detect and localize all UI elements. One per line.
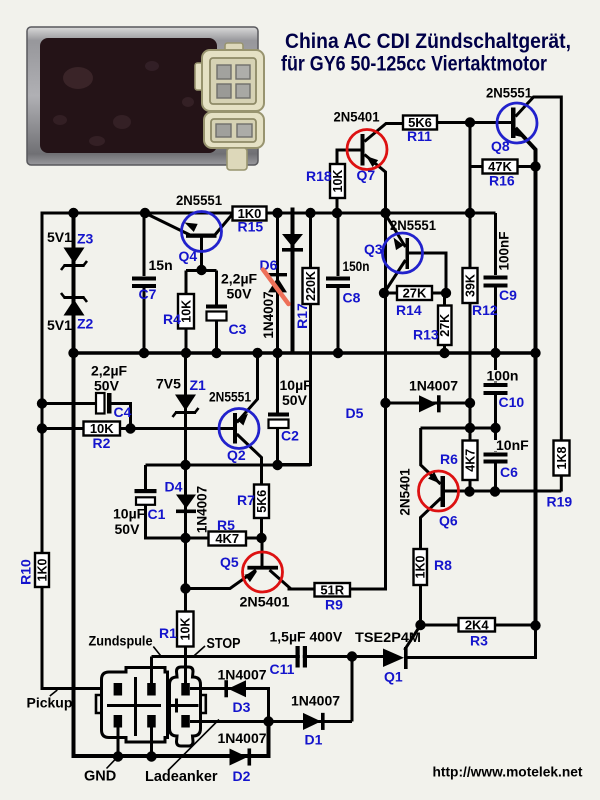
junction D5 anode node <box>380 398 390 408</box>
transistor Q3 emitter arrow <box>394 238 404 251</box>
svg-text:1N4007: 1N4007 <box>218 730 267 746</box>
wire R11 to Q8 base <box>437 121 511 124</box>
junction middle rail / Q2 emitter <box>252 348 262 358</box>
junction middle rail / C9 C10 <box>490 348 500 358</box>
svg-text:R8: R8 <box>434 557 452 573</box>
wire Zundspule terminal riser <box>150 657 153 684</box>
svg-text:GND: GND <box>84 769 116 785</box>
capacitor C7 <box>132 276 156 280</box>
svg-text:R7: R7 <box>237 492 255 508</box>
wire Q4 collector diagonal <box>214 214 233 237</box>
wire R5 leads <box>186 537 262 540</box>
svg-text:C2: C2 <box>281 428 299 444</box>
pointer Pickup <box>50 690 58 696</box>
capacitor C10 <box>484 383 508 387</box>
svg-text:R18: R18 <box>306 168 332 184</box>
svg-text:2N5401: 2N5401 <box>240 594 290 610</box>
resistor R9 <box>315 582 351 597</box>
svg-text:1K0: 1K0 <box>414 555 428 578</box>
svg-text:R5: R5 <box>217 517 235 533</box>
junction R8 / R3 / gate <box>415 620 425 630</box>
svg-text:D4: D4 <box>165 479 183 495</box>
resistor R19 <box>554 441 570 476</box>
svg-text:4K7: 4K7 <box>215 531 239 546</box>
svg-text:R19: R19 <box>547 494 573 510</box>
capacitor C2 (electrolytic) <box>267 413 290 429</box>
resistor R3 <box>459 617 496 632</box>
svg-text:39K: 39K <box>463 274 477 297</box>
junction R11 / Q8 base <box>465 117 475 127</box>
junction top rail / Q8 base column <box>465 208 475 218</box>
svg-text:R6: R6 <box>440 451 458 467</box>
capacitor C11 (vertical plates) <box>296 645 308 668</box>
magneto coil terminal top-left <box>114 683 123 696</box>
capacitor C3 (electrolytic) <box>205 305 228 321</box>
svg-text:Zundspule: Zundspule <box>89 633 153 649</box>
svg-text:Q3: Q3 <box>364 241 383 257</box>
junction ground rail / magneto terminal 2 <box>146 751 156 761</box>
svg-text:C11: C11 <box>270 661 295 677</box>
transistor Q8 base bar <box>511 108 516 139</box>
svg-text:Z2: Z2 <box>77 316 94 332</box>
magneto coil terminal bottom-right (Ladeanker) <box>181 715 190 728</box>
capacitor C9 <box>484 275 508 279</box>
wire Q7 collector to R11 <box>365 124 404 142</box>
zener Z3 <box>61 248 87 271</box>
wire Q3 emitter diagonal <box>386 215 406 248</box>
svg-text:für GY6 50-125cc Viertaktmotor: für GY6 50-125cc Viertaktmotor <box>281 52 548 76</box>
svg-text:Q6: Q6 <box>439 513 458 529</box>
transistor Q5 emitter arrow <box>245 572 257 583</box>
pointer GND <box>107 758 118 769</box>
svg-text:R10: R10 <box>18 559 34 585</box>
svg-text:1N4007: 1N4007 <box>218 667 267 683</box>
svg-text:R11: R11 <box>407 128 432 144</box>
svg-text:10µF: 10µF <box>113 506 146 522</box>
svg-text:C10: C10 <box>499 394 525 410</box>
svg-text:7V5: 7V5 <box>156 376 181 392</box>
svg-text:Q1: Q1 <box>384 669 403 685</box>
magneto coil terminal top-middle (Zundspule) <box>147 683 156 696</box>
resistor R16 <box>483 159 518 174</box>
wire R16 left lead <box>470 165 483 168</box>
junction Z1 / D4 / C1 node <box>180 460 190 470</box>
svg-text:D1: D1 <box>305 732 323 748</box>
wire magneto bottom-middle terminal lead <box>150 727 153 757</box>
photo of CDI unit (black box with metal frame) <box>27 27 258 165</box>
svg-text:R16: R16 <box>489 173 515 189</box>
svg-text:2N5551: 2N5551 <box>390 217 436 233</box>
wire C11 node down to D1 line <box>351 657 354 722</box>
wire C3 bottom <box>215 320 218 353</box>
svg-text:Pickup: Pickup <box>27 695 73 711</box>
diode D6 (crossed out) <box>268 273 287 292</box>
pointer Ladeanker <box>168 720 219 771</box>
svg-text:Q4: Q4 <box>179 248 198 264</box>
transistor Q5 base bar <box>247 566 278 570</box>
resistor R6 <box>463 441 478 481</box>
wire rectifier diode column <box>291 208 295 354</box>
junction Q8 emitter / R16 <box>530 161 540 171</box>
svg-text:50V: 50V <box>282 392 308 408</box>
svg-text:1N4007: 1N4007 <box>261 291 276 338</box>
wire Q5 emitter diagonal <box>186 570 257 589</box>
wire Q3 base diagonal <box>384 260 406 293</box>
svg-text:R9: R9 <box>325 597 343 613</box>
wire D5 leads <box>386 402 471 405</box>
wire C8 column <box>337 213 340 353</box>
svg-text:D2: D2 <box>233 768 251 784</box>
capacitor C4 (electrolytic, vertical plates) <box>96 393 112 414</box>
svg-text:1K8: 1K8 <box>555 446 569 469</box>
junction R3 / Q8 emitter column / cathode <box>530 620 540 630</box>
wire Q6 collector to R8 and gate node <box>421 498 442 625</box>
wire Q4 base to R4 and C3 <box>186 236 217 305</box>
wire Q6 base node line to R19 <box>445 490 561 493</box>
junction top rail / zener column <box>68 208 78 218</box>
wire Z1/D4/R1 column <box>184 353 187 683</box>
svg-text:27K: 27K <box>438 314 452 337</box>
magneto coil terminal bottom-left (GND) <box>114 715 123 728</box>
svg-text:R14: R14 <box>396 302 422 318</box>
svg-text:China AC CDI Zündschaltgerät,: China AC CDI Zündschaltgerät, <box>285 29 571 53</box>
resistor R5 <box>209 531 247 546</box>
magneto core cross lines <box>107 677 199 736</box>
resistor R1 <box>177 612 194 647</box>
svg-text:C6: C6 <box>500 464 518 480</box>
svg-text:10K: 10K <box>179 618 193 641</box>
svg-text:Z3: Z3 <box>77 231 94 247</box>
wire zener column / ground rail / D2-D3 junction riser <box>74 213 269 756</box>
wire Q3 collector bend <box>409 253 446 293</box>
svg-text:2K4: 2K4 <box>465 617 490 632</box>
transistor Q4 base bar <box>186 234 217 238</box>
wire Q4 emitter diagonal <box>145 213 190 235</box>
svg-text:C3: C3 <box>229 321 247 337</box>
transistor Q8 circle <box>497 103 537 143</box>
svg-text:R3: R3 <box>470 633 488 649</box>
transistor Q2 circle <box>219 409 259 449</box>
svg-text:R4: R4 <box>163 311 181 327</box>
wire left rail down to pickup line <box>42 212 101 689</box>
transistor Q6 emitter arrow <box>428 472 440 484</box>
diode D4 <box>176 495 196 514</box>
thyristor Q1 triangle and cathode bar <box>383 647 408 669</box>
resistor R14 <box>397 286 432 301</box>
wire C7 column <box>143 213 146 353</box>
junction ground rail / magneto terminal <box>113 751 123 761</box>
junction top rail / C7 and Q4 emitter <box>140 208 150 218</box>
svg-text:50V: 50V <box>94 378 120 394</box>
junction middle rail / R4 and Z1 <box>181 348 191 358</box>
junction top rail / D6 column <box>272 208 282 218</box>
wire C9/C10/C6 column <box>494 213 497 492</box>
transistor Q5 circle <box>243 552 283 592</box>
svg-text:C4: C4 <box>114 404 132 420</box>
svg-text:R17: R17 <box>294 303 310 329</box>
wire D6 column <box>276 213 279 353</box>
svg-text:R13: R13 <box>413 327 439 343</box>
svg-text:D5: D5 <box>346 405 364 421</box>
wire Q7 base to R18 <box>337 150 361 213</box>
junction middle rail / C7 <box>139 348 149 358</box>
resistor R2 <box>84 421 121 436</box>
transistor Q6 circle <box>419 471 459 511</box>
svg-text:R15: R15 <box>238 219 264 235</box>
transistor Q7 base bar <box>361 134 365 166</box>
junction C1 / R5 / D4 column <box>180 533 190 543</box>
svg-text:5K6: 5K6 <box>255 490 269 513</box>
junction middle rail / Q8 emitter column <box>530 348 540 358</box>
svg-text:1N4007: 1N4007 <box>195 486 210 533</box>
transistor Q4 emitter arrow <box>185 223 198 233</box>
transistor Q4 circle <box>182 212 222 252</box>
svg-text:Q8: Q8 <box>491 138 510 154</box>
svg-text:Q7: Q7 <box>357 167 376 183</box>
wire C4 leads <box>42 404 131 429</box>
svg-text:C1: C1 <box>148 506 166 522</box>
svg-text:1N4007: 1N4007 <box>291 693 340 709</box>
junction R2 / C4 / Q2 base <box>125 423 135 433</box>
resistor R12 <box>463 268 478 303</box>
rectifier diode (1N4007) <box>282 234 303 252</box>
svg-text:R2: R2 <box>93 435 111 451</box>
transistor Q7 emitter arrow <box>366 156 378 167</box>
wire Q7 emitter / long column to R9 <box>288 155 386 590</box>
wire D3 line <box>190 689 269 722</box>
transistor Q8 emitter arrow <box>512 128 524 138</box>
junction C6 bottom <box>490 486 500 496</box>
svg-text:150n: 150n <box>343 258 370 274</box>
pointer Zundspule <box>153 647 161 658</box>
svg-text:2N5401: 2N5401 <box>334 109 380 125</box>
svg-text:10K: 10K <box>90 421 114 436</box>
svg-text:2,2µF: 2,2µF <box>221 271 258 287</box>
wire Q5 base riser <box>261 538 264 566</box>
zener Z1 <box>173 395 199 418</box>
wire R2 leads <box>42 427 131 430</box>
svg-text:10nF: 10nF <box>496 437 529 453</box>
pointer STOP <box>193 646 205 657</box>
junction middle rail / zener column <box>68 348 78 358</box>
svg-text:50V: 50V <box>115 521 141 537</box>
junction D5 cathode / R12 column <box>465 398 475 408</box>
capacitor C8 <box>326 276 350 280</box>
transistor Q3 base bar <box>406 238 410 269</box>
svg-text:D3: D3 <box>233 699 251 715</box>
wire R16 right lead <box>517 165 536 168</box>
wire R13 column <box>443 293 446 353</box>
zener Z2 <box>61 293 87 316</box>
magneto stator symbol outer shell left <box>102 668 168 743</box>
wire Q1 cathode to R3 node <box>406 626 536 658</box>
svg-text:2N5551: 2N5551 <box>176 192 222 208</box>
wire middle rail <box>74 351 536 355</box>
svg-text:220K: 220K <box>304 271 318 301</box>
diode D2 <box>230 748 252 765</box>
wire C1 bends <box>146 465 186 538</box>
svg-text:http://www.motelek.net: http://www.motelek.net <box>433 765 584 780</box>
wire R17 column with bend to C2 node <box>278 213 311 465</box>
capacitor C6 <box>484 452 508 456</box>
resistor R18 <box>330 164 345 198</box>
junction C2 bottom / R17 bend <box>272 460 282 470</box>
transistor Q3 circle <box>383 233 423 273</box>
wire R12/R6 column <box>469 214 472 492</box>
wire C2 column <box>276 353 279 465</box>
svg-text:5V1: 5V1 <box>47 229 72 245</box>
junction left rail / R2 <box>37 423 47 433</box>
svg-text:Q5: Q5 <box>220 554 239 570</box>
junction C11 / Q1 anode / D1 riser <box>347 651 357 661</box>
junction Q3 collector / R14 / R13 <box>441 288 451 298</box>
diode D5 <box>419 395 441 412</box>
diode D3 <box>224 680 246 697</box>
wire Q2 emitter to middle rail <box>237 353 258 423</box>
resistor R13 <box>438 306 452 346</box>
magneto coil terminal top-right (stop/R1) <box>181 683 190 696</box>
svg-text:2N5551: 2N5551 <box>209 389 251 405</box>
junction Q3 base / R14 <box>379 288 389 298</box>
svg-text:R1: R1 <box>159 625 177 641</box>
svg-text:C9: C9 <box>499 287 517 303</box>
resistor R8 <box>414 549 428 585</box>
junction D3 / D2 / D1 node <box>263 716 273 726</box>
wire Q8 collector over to R19 column <box>516 97 562 492</box>
resistor R17 <box>303 268 319 304</box>
photo: 2-pin connector <box>204 112 264 170</box>
junction C10 / C6 node <box>490 423 500 433</box>
svg-text:C8: C8 <box>343 290 361 306</box>
svg-text:1N4007: 1N4007 <box>409 378 458 394</box>
svg-text:2N5551: 2N5551 <box>486 85 532 101</box>
magneto coil terminal bottom-middle <box>147 715 156 728</box>
svg-text:50V: 50V <box>227 286 253 302</box>
wire top rail <box>42 212 496 215</box>
magneto stator symbol outer shell right <box>170 667 201 746</box>
transistor Q6 base bar <box>441 476 446 507</box>
junction middle rail / C8 <box>333 348 343 358</box>
junction middle rail / C3 <box>211 348 221 358</box>
wire R14 leads <box>384 292 446 295</box>
magneto right mounting bracket <box>201 695 206 713</box>
svg-text:10K: 10K <box>179 300 193 323</box>
junction R5 / R7 / Q5 base <box>256 533 266 543</box>
junction top rail / R17 column <box>305 208 315 218</box>
wire Q2 base line <box>131 427 234 430</box>
wire Q2 collector to R7 column <box>237 434 262 538</box>
resistor R4 <box>178 294 194 329</box>
wire Ladeanker/D1 line <box>190 720 352 723</box>
wire Q6 emitter node line <box>421 427 496 430</box>
wire thyristor gate diagonal <box>405 625 421 650</box>
svg-text:4K7: 4K7 <box>463 449 477 472</box>
svg-text:2N5401: 2N5401 <box>398 468 413 516</box>
junction top rail / Q7-Q3 emitters <box>380 208 390 218</box>
wire Q5 collector to R9 <box>270 570 315 589</box>
wire C11 line from Zundspule node to Q1 anode <box>152 655 384 658</box>
svg-text:Q2: Q2 <box>227 447 246 463</box>
svg-text:10µF: 10µF <box>280 377 313 393</box>
svg-text:51R: 51R <box>320 582 344 597</box>
transistor Q7 circle <box>347 130 387 170</box>
wire R1 top lead <box>184 589 187 613</box>
svg-text:R12: R12 <box>472 302 498 318</box>
resistor R7 <box>254 485 269 519</box>
svg-text:1K0: 1K0 <box>35 558 49 581</box>
transistor Q2 base bar <box>233 413 237 444</box>
red cross-out slash over D6 <box>263 270 289 305</box>
svg-text:5V1: 5V1 <box>47 317 72 333</box>
transistor Q2 emitter arrow <box>237 414 248 426</box>
resistor R15 <box>233 206 267 221</box>
svg-text:Ladeanker: Ladeanker <box>145 769 218 785</box>
svg-text:Z1: Z1 <box>190 377 207 393</box>
junction Q4 base node <box>196 265 206 275</box>
wire Q8 emitter long column <box>516 128 536 626</box>
photo: 4-pin connector <box>195 43 264 111</box>
svg-text:10K: 10K <box>331 170 345 193</box>
wire Q6 emitter diagonal <box>421 428 441 484</box>
junction middle rail / D6 and C2 <box>272 348 282 358</box>
svg-text:STOP: STOP <box>207 636 241 652</box>
svg-text:2,2µF: 2,2µF <box>91 363 128 379</box>
wire Q8 base column down to top rail <box>469 123 472 214</box>
svg-text:100nF: 100nF <box>496 231 511 270</box>
junction left rail / C4 <box>37 398 47 408</box>
svg-text:C7: C7 <box>139 286 157 302</box>
diode D1 <box>303 713 325 730</box>
junction Q6 emitter / R6 top <box>465 423 475 433</box>
resistor R11 <box>403 115 437 130</box>
svg-text:TSE2P4M: TSE2P4M <box>355 629 421 645</box>
svg-text:100n: 100n <box>487 368 519 384</box>
svg-text:15n: 15n <box>149 257 173 273</box>
capacitor C1 (electrolytic) <box>134 489 158 505</box>
resistor R10 <box>35 553 49 587</box>
wire magneto bottom-left terminal lead <box>117 727 120 756</box>
svg-text:1,5µF 400V: 1,5µF 400V <box>270 629 343 645</box>
junction middle rail / R13 <box>439 348 449 358</box>
wire R4 bottom <box>185 328 188 353</box>
magneto left mounting bracket <box>96 695 102 713</box>
wire R3 leads <box>421 624 536 627</box>
wire D4/C2 node line <box>146 464 311 467</box>
junction top rail / R18 <box>332 208 342 218</box>
junction Q6 base / R6 bottom <box>464 486 474 496</box>
junction Q5 emitter / R1 column <box>180 583 190 593</box>
svg-text:27K: 27K <box>403 286 427 301</box>
